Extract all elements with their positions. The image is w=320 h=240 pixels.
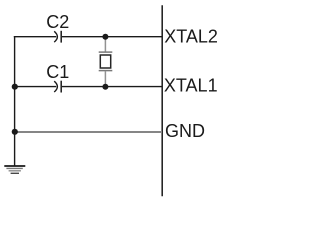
- ground symbol: [4, 166, 25, 173]
- svg-text:C1: C1: [46, 62, 69, 82]
- junction crystal bottom on XTAL1: [102, 84, 108, 90]
- svg-text:GND: GND: [165, 121, 205, 141]
- svg-text:XTAL2: XTAL2: [164, 27, 218, 47]
- svg-text:XTAL1: XTAL1: [164, 76, 218, 96]
- junction left bus XTAL1: [12, 84, 18, 90]
- wire XTAL2 right segment: [62, 36, 162, 38]
- wire XTAL2 left segment: [14, 36, 56, 38]
- crystal Y1: [99, 38, 113, 86]
- IC edge vertical line: [161, 5, 163, 196]
- capacitor C2: [54, 31, 61, 43]
- capacitor C1: [54, 81, 61, 93]
- junction left bus GND: [12, 129, 18, 135]
- wire left vertical bus: [14, 36, 16, 166]
- wire XTAL1 left segment: [14, 86, 56, 88]
- wire XTAL1 right segment: [62, 86, 162, 88]
- wire GND: [15, 131, 162, 133]
- junction crystal top on XTAL2: [102, 34, 108, 40]
- svg-text:C2: C2: [46, 12, 69, 32]
